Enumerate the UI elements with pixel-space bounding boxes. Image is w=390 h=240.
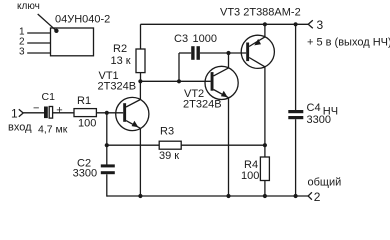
transistor VT2 2Т324В — [183, 66, 238, 110]
resistor R4 100 — [241, 157, 269, 182]
label ключ — [17, 1, 59, 33]
wire C2 to bottom rail — [106, 174, 109, 196]
bottom rail (common) — [107, 195, 308, 197]
wire VT3 emitter up to rail — [264, 24, 266, 37]
svg-text:R1: R1 — [77, 95, 91, 107]
pin 2 — [19, 36, 51, 47]
capacitor C3 1000 — [174, 33, 217, 60]
transistor VT3 2Т388АМ-2 — [220, 7, 301, 69]
wire node to VT2 base — [140, 80, 210, 82]
wire C1 to R1 — [53, 112, 74, 114]
svg-text:2: 2 — [314, 190, 321, 204]
wire C3 right to VT3 base — [200, 52, 246, 54]
node VT2 collector — [226, 51, 230, 55]
top rail +5V — [141, 23, 309, 25]
svg-text:VT3 2Т388АМ-2: VT3 2Т388АМ-2 — [220, 7, 301, 19]
svg-text:C4: C4 — [307, 102, 321, 114]
svg-text:39 к: 39 к — [159, 150, 179, 162]
node R3 branch — [105, 143, 109, 147]
wire input to C1 — [23, 112, 44, 114]
svg-text:3300: 3300 — [73, 167, 97, 179]
wire to C3 left plate — [179, 52, 191, 54]
svg-text:100: 100 — [241, 170, 259, 182]
terminal 1 (вход) — [8, 107, 32, 134]
node C3 branch — [177, 79, 181, 83]
wire R2 top to rail — [140, 24, 142, 49]
svg-text:R2: R2 — [113, 43, 127, 55]
wire R3 row — [107, 144, 265, 146]
wire R4 bottom to rail — [264, 181, 266, 197]
transistor VT1 2Т324В — [98, 70, 149, 131]
svg-text:13 к: 13 к — [111, 55, 131, 67]
svg-text:3300: 3300 — [307, 114, 331, 126]
node VT1 collector / VT2 base — [138, 79, 142, 83]
wire VT1 collector up to R2 — [139, 81, 141, 99]
svg-text:3: 3 — [19, 47, 25, 58]
resistor R1 100 — [74, 95, 96, 130]
resistor R3 39к — [159, 126, 181, 162]
svg-text:2Т324В: 2Т324В — [98, 81, 137, 93]
svg-text:2Т324В: 2Т324В — [183, 99, 222, 111]
svg-text:3: 3 — [317, 18, 324, 32]
wire R2 bottom to node — [140, 73, 142, 82]
pin 3 — [19, 47, 51, 58]
resistor R2 13к — [111, 43, 146, 73]
svg-text:100: 100 — [78, 118, 96, 130]
wire VT2 emitter down to rail — [228, 98, 230, 196]
svg-text:C1: C1 — [42, 91, 56, 103]
wire VT3 collector down to R4 node — [264, 67, 266, 157]
capacitor C1 4,7 мк — [33, 91, 68, 135]
capacitor C4 3300 — [288, 102, 338, 126]
terminal 2 (общий) — [308, 176, 342, 203]
pin 1 — [19, 27, 51, 38]
wire C3 branch vertical — [178, 53, 180, 81]
wire VT2 collector up — [228, 53, 230, 68]
capacitor C2 3300 — [73, 157, 115, 179]
svg-text:04УН040-2: 04УН040-2 — [55, 14, 110, 26]
wire node down to C2 — [106, 113, 108, 165]
node C4 top on rail — [294, 22, 298, 26]
svg-text:+ 5 в (выход НЧ): + 5 в (выход НЧ) — [307, 36, 390, 48]
wire C4 bottom to rail — [295, 119, 297, 196]
svg-text:+: + — [56, 104, 62, 116]
svg-text:1: 1 — [11, 107, 18, 121]
svg-text:вход: вход — [8, 121, 32, 133]
svg-text:−: − — [33, 103, 39, 115]
wire R1 to VT1 base — [96, 112, 123, 114]
svg-text:ключ: ключ — [17, 1, 40, 12]
wire VT1 emitter down to rail — [139, 128, 141, 196]
svg-text:общий: общий — [308, 176, 342, 188]
terminal 3 (+5V) — [307, 18, 390, 48]
node R3/R4/VT3 — [263, 143, 267, 147]
wire C4 branch top — [295, 24, 297, 110]
svg-text:C3: C3 — [174, 33, 188, 45]
svg-text:1000: 1000 — [193, 33, 217, 45]
svg-text:R3: R3 — [160, 126, 174, 138]
IC U1 04УН040-2 — [51, 14, 111, 56]
svg-text:4,7 мк: 4,7 мк — [38, 123, 68, 135]
node after R1 — [105, 111, 109, 115]
